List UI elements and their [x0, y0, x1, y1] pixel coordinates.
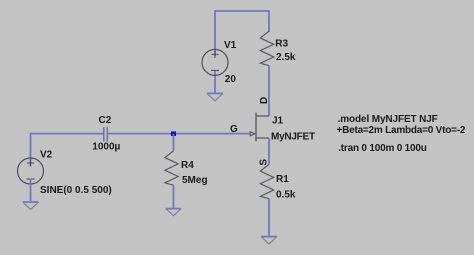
resistor R1	[260, 164, 273, 198]
svg-text:5Meg: 5Meg	[182, 175, 208, 186]
svg-text:V1: V1	[224, 40, 237, 51]
svg-text:C2: C2	[99, 115, 112, 126]
svg-text:V2: V2	[40, 149, 53, 160]
svg-text:.tran 0 100m 0 100u: .tran 0 100m 0 100u	[338, 143, 427, 154]
wire R3 to drain	[268, 66, 270, 116]
svg-text:.model MyNJFET NJF: .model MyNJFET NJF	[338, 114, 438, 125]
wire R1 to ground	[268, 199, 270, 237]
ground under R1	[261, 237, 277, 244]
wire top rail V1 to R3	[215, 11, 269, 56]
svg-text:0.5k: 0.5k	[276, 190, 296, 201]
svg-text:20: 20	[225, 74, 237, 85]
jfet J1	[250, 113, 269, 142]
wire R4 to ground	[173, 185, 175, 208]
capacitor C2	[104, 127, 108, 142]
svg-text:+Beta=2m Lambda=0 Vto=-2: +Beta=2m Lambda=0 Vto=-2	[337, 125, 466, 136]
ground under R4	[166, 209, 181, 216]
svg-text:1000µ: 1000µ	[92, 142, 120, 153]
resistor R3	[260, 31, 273, 65]
svg-text:MyNJFET: MyNJFET	[271, 132, 315, 143]
svg-text:SINE(0 0.5 500): SINE(0 0.5 500)	[40, 185, 112, 196]
voltage source V2	[18, 158, 44, 184]
svg-text:D: D	[259, 97, 270, 104]
wire V1 bottom to ground	[214, 70, 216, 93]
svg-text:R3: R3	[275, 38, 288, 49]
resistor R4	[165, 151, 178, 185]
node junction	[171, 131, 176, 136]
svg-text:R4: R4	[181, 160, 194, 171]
svg-text:J1: J1	[272, 116, 284, 127]
wire V2 bottom to ground	[30, 179, 32, 203]
wire C2 to gate	[108, 133, 251, 135]
wire junction to R4	[173, 134, 175, 151]
svg-text:R1: R1	[276, 174, 289, 185]
ground under V2	[23, 202, 39, 209]
wire V2 top to C2	[31, 134, 104, 166]
svg-text:2.5k: 2.5k	[276, 52, 296, 63]
ground under V1	[207, 93, 223, 100]
voltage source V1	[202, 49, 228, 75]
wire source to R1	[268, 138, 270, 164]
